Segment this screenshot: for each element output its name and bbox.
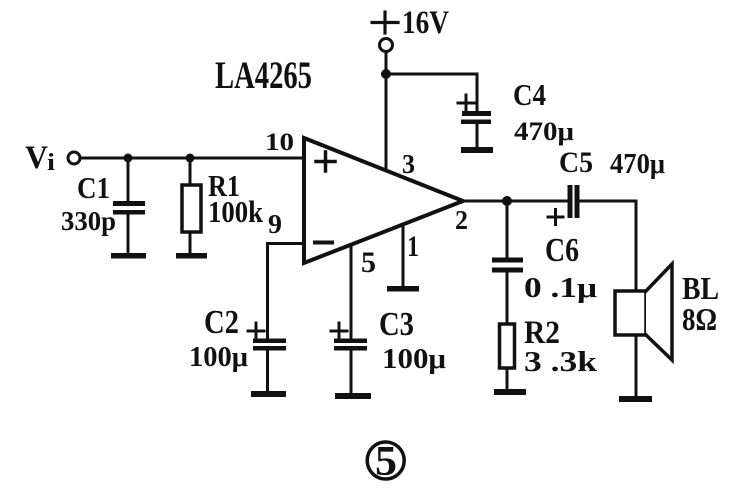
op-amp U1 triangle (304, 138, 463, 263)
ground R1 (176, 253, 207, 259)
wire output right to speaker (580, 201, 636, 291)
wire C1 top (127, 158, 130, 201)
wire supply to C4 (386, 74, 477, 112)
wire pin 1 (402, 225, 405, 287)
svg-text:C4: C4 (513, 77, 546, 112)
svg-text:8Ω: 8Ω (682, 301, 717, 337)
label + of C4 (458, 95, 474, 111)
resistor R2 (500, 324, 515, 368)
wire output left (463, 200, 567, 203)
capacitor C2 (253, 339, 286, 351)
svg-text:0 .1μ: 0 .1μ (524, 273, 597, 304)
svg-text:470μ: 470μ (514, 117, 574, 146)
svg-text:2: 2 (455, 205, 468, 235)
capacitor C6 (492, 258, 523, 273)
svg-text:i: i (47, 150, 55, 176)
wire R1 bottom (189, 232, 192, 254)
minus input symbol (315, 241, 332, 245)
svg-text:R2: R2 (524, 315, 560, 351)
speaker BL box (615, 291, 646, 335)
svg-text:100μ: 100μ (189, 341, 249, 373)
label + of C5 (548, 210, 563, 225)
wire pin 3 vertical (385, 74, 388, 169)
svg-text:330p: 330p (61, 206, 116, 236)
resistor R1 (182, 185, 201, 232)
wire C4 bottom (476, 124, 479, 148)
plus input symbol (316, 152, 335, 171)
wire R1 top (189, 158, 192, 186)
ground C2 (251, 391, 286, 397)
capacitor C4 (461, 111, 491, 124)
speaker BL horn (646, 264, 672, 360)
svg-text:C6: C6 (545, 232, 579, 269)
capacitor C5 (568, 185, 580, 218)
ground pin 1 (387, 286, 419, 292)
svg-text:C3: C3 (379, 306, 414, 343)
node supply junction (381, 69, 391, 79)
svg-text:1: 1 (407, 230, 419, 263)
svg-text:470μ: 470μ (610, 149, 665, 180)
wire C6 top (506, 201, 509, 257)
svg-text:C1: C1 (77, 170, 110, 205)
svg-text:C5: C5 (559, 146, 593, 179)
wire pin 5 (350, 245, 353, 340)
node input C1 junction (124, 154, 133, 163)
svg-text:C2: C2 (204, 304, 239, 341)
svg-text:10: 10 (265, 129, 294, 156)
label + of C3 (331, 323, 347, 339)
svg-text:16V: 16V (402, 5, 449, 41)
wire C6 to R2 (506, 272, 509, 324)
ground C3 (335, 393, 371, 399)
svg-text:9: 9 (268, 209, 282, 239)
figure number circle 5 (367, 442, 404, 479)
label +16V (372, 12, 398, 33)
label Vi (25, 140, 55, 176)
svg-text:100k: 100k (208, 194, 264, 229)
node output junction (502, 196, 512, 206)
wire input line (81, 157, 304, 160)
wire C3 bottom (350, 350, 353, 394)
wire C2 bottom (266, 350, 269, 392)
ground speaker (619, 396, 652, 402)
svg-text:3: 3 (402, 149, 415, 179)
svg-text:5: 5 (361, 246, 376, 279)
capacitor C1 (113, 201, 145, 215)
svg-text:V: V (25, 140, 48, 176)
label + of C2 (248, 323, 264, 339)
node input R1 junction (186, 154, 195, 163)
svg-text:3 .3k: 3 .3k (524, 347, 598, 378)
svg-text:5: 5 (375, 439, 397, 485)
wire speaker ground (635, 335, 638, 397)
ground C4 (461, 147, 493, 153)
svg-text:100μ: 100μ (382, 343, 447, 375)
wire R2 bottom (506, 368, 509, 390)
wire C1 bottom (127, 214, 130, 254)
supply terminal (380, 39, 393, 52)
ground R2 (494, 389, 526, 395)
input terminal (68, 152, 80, 164)
wire pin 9 (268, 244, 305, 340)
ground C1 (111, 253, 146, 259)
capacitor C3 (334, 339, 367, 351)
svg-text:LA4265: LA4265 (215, 54, 312, 97)
wire supply down (385, 52, 388, 74)
